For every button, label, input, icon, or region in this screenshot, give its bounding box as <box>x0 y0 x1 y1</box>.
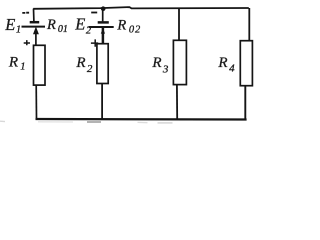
wire branch3 top <box>178 8 180 41</box>
wire E2 stem <box>102 28 105 44</box>
svg-text:4: 4 <box>229 63 235 75</box>
scan smudges <box>0 121 173 123</box>
svg-text:1: 1 <box>20 61 25 72</box>
emf arrow E1 <box>33 27 39 35</box>
emf arrow E2 <box>101 28 105 34</box>
wire branch2 top <box>102 9 104 22</box>
battery E1 long plate <box>22 26 46 28</box>
svg-text:3: 3 <box>162 64 169 76</box>
polarity plus E1 <box>24 40 30 45</box>
svg-text:R: R <box>217 55 227 71</box>
battery E2 long plate <box>89 26 114 28</box>
resistor R4 box <box>240 41 252 86</box>
battery E2 short plate <box>98 21 109 24</box>
polarity minus E2 <box>91 12 97 14</box>
svg-text:2: 2 <box>87 63 93 75</box>
wire top rail <box>33 7 249 9</box>
wire branch4 top <box>248 8 250 41</box>
svg-text:1: 1 <box>16 24 21 35</box>
wire branch1 top <box>33 9 35 22</box>
svg-text:01: 01 <box>58 24 68 35</box>
svg-text:02: 02 <box>129 25 141 36</box>
resistor R3 box <box>173 40 186 84</box>
polarity minus E1 <box>22 12 29 14</box>
wire E1 stem <box>35 33 37 46</box>
svg-text:R: R <box>151 55 161 71</box>
battery E1 short plate <box>30 21 40 24</box>
svg-text:R: R <box>116 18 126 34</box>
wire branch3 bottom <box>176 84 178 119</box>
polarity plus E2 <box>91 39 98 46</box>
wire bottom rail <box>36 118 247 121</box>
svg-text:R: R <box>8 55 18 71</box>
svg-text:R: R <box>75 55 85 71</box>
svg-text:R: R <box>46 17 56 33</box>
resistor R2 box <box>97 44 108 84</box>
wire branch1 bottom <box>35 85 37 119</box>
resistor R1 box <box>34 45 46 85</box>
wire branch2 bottom <box>101 83 103 119</box>
wire branch4 bottom <box>244 86 246 120</box>
svg-text:2: 2 <box>86 25 92 36</box>
node junction dot <box>101 6 106 11</box>
svg-text:E: E <box>4 15 15 34</box>
svg-text:E: E <box>74 14 85 33</box>
